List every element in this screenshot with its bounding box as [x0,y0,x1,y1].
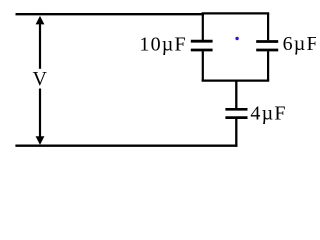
capacitor C1 10uF plates [191,41,213,50]
wire top horizontal [16,13,205,15]
svg-text:6µF: 6µF [283,33,316,55]
svg-text:4µF: 4µF [250,102,286,124]
voltage source arrow V (double-headed) [36,16,45,145]
box: parallel capacitor loop top edge [202,12,270,14]
svg-text:V: V [32,68,47,90]
box: left edge upper segment [202,13,204,40]
box: parallel capacitor loop bottom edge [202,79,270,81]
svg-text:10µF: 10µF [139,33,186,55]
wire bottom horizontal [15,145,237,147]
capacitor C3 4uF plates [225,109,247,117]
wire from C3 to bottom wire [235,118,237,147]
box: left edge lower segment [202,51,204,80]
wire from box bottom to C3 [235,81,237,109]
capacitor C2 6uF plates [256,42,278,51]
blue dot node [235,37,238,40]
box: right edge lower segment [267,51,269,80]
box: right edge upper segment [267,13,269,40]
